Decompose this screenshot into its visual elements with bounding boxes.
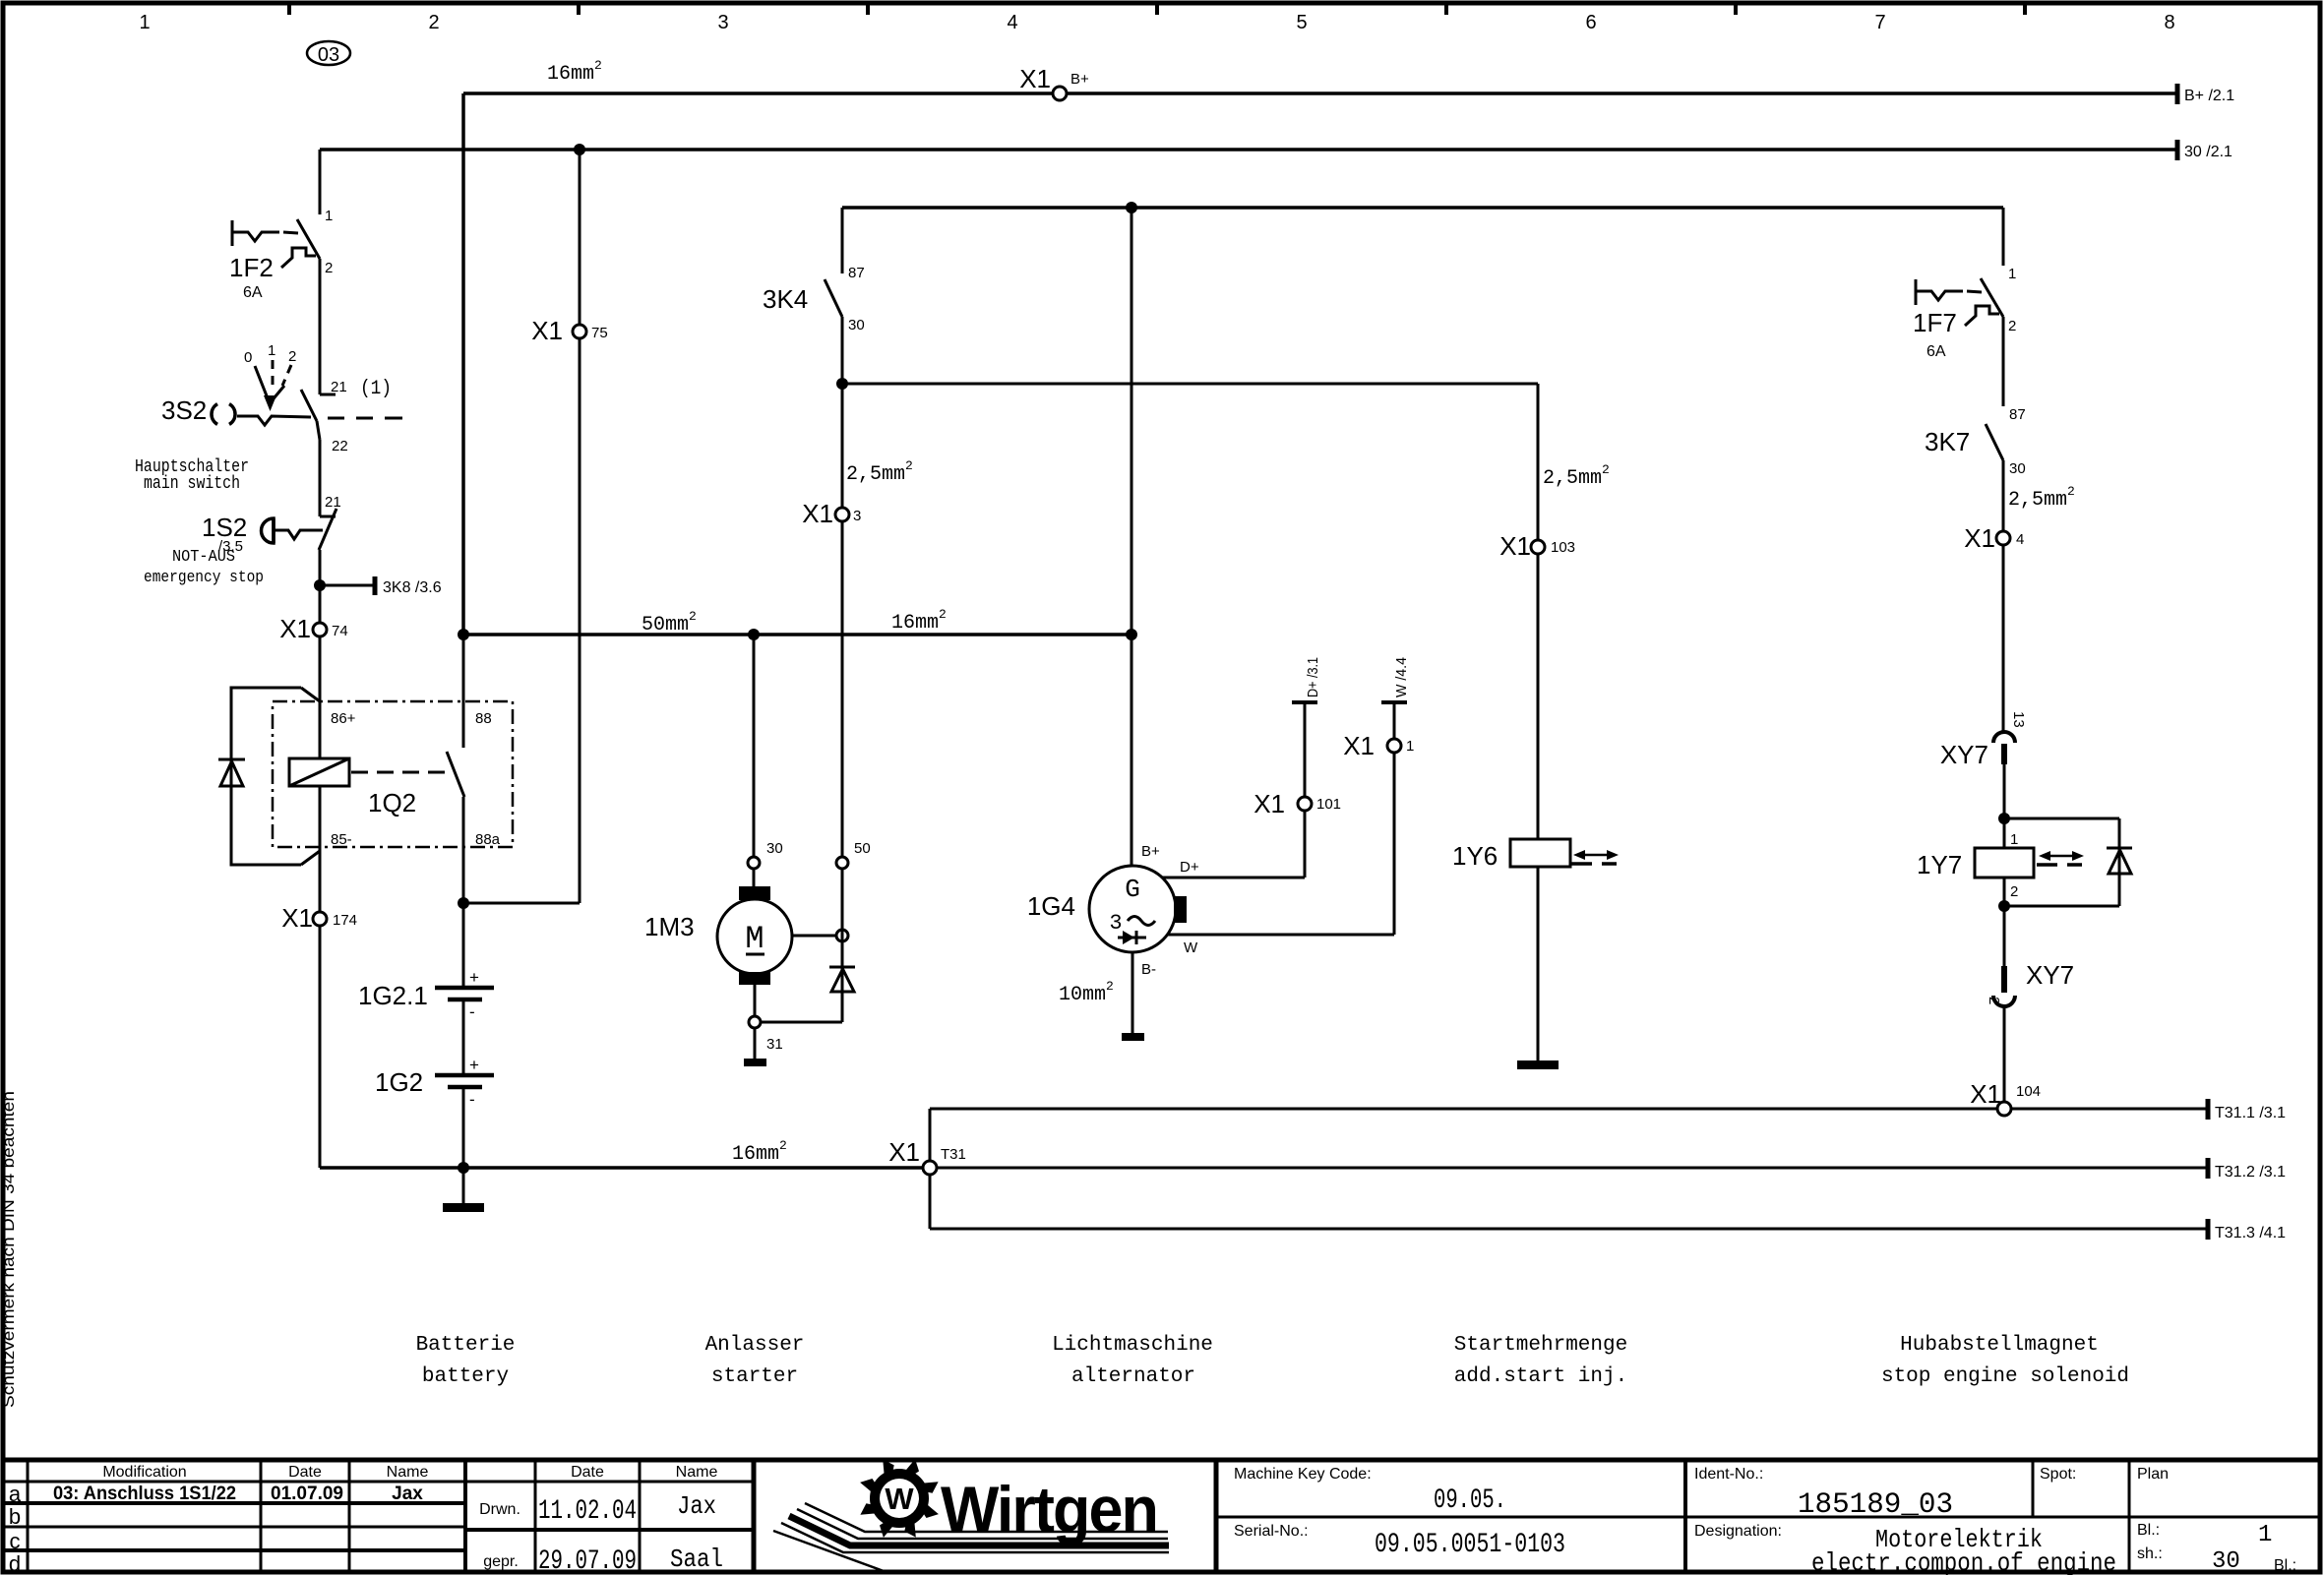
svg-text:1: 1 — [2258, 1522, 2272, 1548]
svg-text:1Y6: 1Y6 — [1452, 841, 1498, 871]
svg-text:3: 3 — [717, 12, 728, 33]
svg-text:1: 1 — [2010, 831, 2018, 848]
svg-text:emergency stop: emergency stop — [144, 569, 264, 587]
svg-text:2,5mm2: 2,5mm2 — [2008, 484, 2075, 512]
svg-text:B-: B- — [1141, 961, 1156, 978]
wire 1F2 to 3S2 — [319, 259, 322, 394]
wire X1:4 to connector XY7:13 — [2002, 545, 2005, 731]
svg-text:03: Anschluss 1S1/22: 03: Anschluss 1S1/22 — [53, 1484, 236, 1504]
svg-text:30: 30 — [766, 840, 783, 857]
wire from B+ bus down to 50mm2 bus — [461, 93, 465, 635]
ground (1Y6) — [1517, 1060, 1559, 1069]
svg-text:Drwn.: Drwn. — [479, 1501, 520, 1518]
svg-text:2,5mm2: 2,5mm2 — [1543, 462, 1610, 490]
svg-text:X1: X1 — [802, 499, 833, 528]
solenoid 1Y7 — [1975, 848, 2034, 878]
wire X1:103 to 1Y6 — [1537, 554, 1540, 839]
wire 1S2 to X1:74 — [319, 550, 322, 623]
svg-text:D+ /3.1: D+ /3.1 — [1305, 657, 1321, 697]
terminal X1 103 — [1531, 540, 1545, 554]
svg-text:X1: X1 — [1254, 789, 1285, 818]
wire 1Y7 to node — [2003, 878, 2006, 966]
svg-text:starter: starter — [711, 1365, 798, 1388]
node junction 1Y7 bottom — [1998, 900, 2010, 912]
svg-text:1G4: 1G4 — [1027, 891, 1075, 921]
svg-text:3K8 /3.6: 3K8 /3.6 — [383, 579, 442, 596]
svg-text:B+: B+ — [1141, 843, 1160, 860]
column ticks — [287, 3, 291, 15]
svg-text:10mm2: 10mm2 — [1059, 979, 1114, 1006]
svg-text:50mm2: 50mm2 — [642, 609, 697, 636]
terminal W/4.4 — [1381, 700, 1407, 704]
svg-text:+: + — [469, 968, 479, 987]
svg-text:29.07.09: 29.07.09 — [538, 1546, 637, 1575]
diode (starter) — [829, 966, 855, 969]
svg-text:Bl.:: Bl.: — [2137, 1522, 2160, 1539]
wire battery to ground bus — [462, 1087, 465, 1203]
svg-text:31: 31 — [766, 1036, 783, 1053]
svg-text:30: 30 — [2009, 460, 2026, 477]
svg-text:2,5mm2: 2,5mm2 — [846, 458, 913, 486]
svg-text:Anlasser: Anlasser — [705, 1334, 805, 1357]
svg-text:Schutzvermerk nach DIN 34 beac: Schutzvermerk nach DIN 34 beachten — [0, 1091, 18, 1408]
wire bus 50mm2/16mm2 y=645 — [463, 633, 1131, 636]
terminal X1 B+ — [1053, 87, 1067, 100]
terminal X1 T31 — [923, 1161, 937, 1175]
svg-text:stop engine solenoid: stop engine solenoid — [1881, 1365, 2129, 1388]
node junction x1150/y645 — [1126, 629, 1137, 640]
svg-text:Ident-No.:: Ident-No.: — [1694, 1466, 1763, 1483]
svg-text:T31.3 /4.1: T31.3 /4.1 — [2215, 1225, 2286, 1242]
wire 3K4 to X1:3 — [841, 384, 844, 508]
svg-text:M: M — [745, 921, 764, 957]
svg-text:87: 87 — [848, 265, 865, 281]
svg-text:W: W — [1184, 939, 1198, 956]
node junction x471/y918 — [458, 897, 469, 909]
svg-text:X1: X1 — [888, 1137, 920, 1167]
terminal T31.1/3.1 — [2206, 1099, 2211, 1120]
svg-text:03: 03 — [318, 44, 339, 66]
wire X1:101 to D+ terminal — [1304, 702, 1307, 797]
svg-text:0: 0 — [244, 349, 252, 366]
svg-text:B+ /2.1: B+ /2.1 — [2184, 88, 2234, 104]
svg-text:Machine Key Code:: Machine Key Code: — [1234, 1466, 1372, 1483]
svg-text:1: 1 — [2008, 266, 2016, 282]
svg-text:3K4: 3K4 — [763, 284, 808, 314]
terminal 31 of 1M3 — [749, 1016, 761, 1028]
svg-text:1: 1 — [268, 342, 275, 359]
svg-text:86+: 86+ — [331, 710, 356, 727]
svg-text:50: 50 — [854, 840, 871, 857]
svg-text:2: 2 — [1986, 997, 2002, 1004]
wire 3K7 to X1:4 — [2002, 460, 2005, 531]
wire 3S2 to 1S2 — [319, 440, 322, 516]
Wirtgen logo gear — [870, 1469, 929, 1528]
svg-text:6: 6 — [1585, 12, 1596, 33]
terminal X1 74 — [313, 623, 327, 636]
svg-text:Wirtgen: Wirtgen — [941, 1473, 1157, 1545]
svg-text:add.start inj.: add.start inj. — [1454, 1365, 1627, 1388]
svg-text:-: - — [469, 1090, 475, 1109]
svg-text:Hubabstellmagnet: Hubabstellmagnet — [1900, 1334, 2099, 1357]
wire XY7 to 1Y7 — [2003, 764, 2006, 848]
terminal X1 4 — [1996, 531, 2010, 545]
drawn/checked table — [534, 1460, 537, 1572]
svg-text:Name: Name — [676, 1464, 718, 1481]
wire 30bus down (X1:75) — [579, 150, 581, 325]
ground (battery minus) — [443, 1203, 484, 1212]
svg-text:21: 21 — [325, 494, 341, 511]
coil 1Q2 — [289, 758, 349, 786]
svg-text:30 /2.1: 30 /2.1 — [2184, 144, 2232, 160]
diode branch parallel to 1Y7 — [2004, 818, 2119, 820]
diode (1Y7 freewheel) — [2107, 847, 2132, 850]
svg-text:87: 87 — [2009, 406, 2026, 423]
svg-text:09.05.0051-0103: 09.05.0051-0103 — [1375, 1530, 1565, 1560]
svg-text:16mm2: 16mm2 — [732, 1138, 787, 1166]
svg-text:7: 7 — [1874, 12, 1885, 33]
svg-text:1F7: 1F7 — [1913, 308, 1957, 337]
terminal T31.3/4.1 — [2206, 1219, 2211, 1240]
wire 1F7 to 3K7 — [2002, 317, 2005, 406]
svg-text:NOT-AUS: NOT-AUS — [172, 548, 235, 567]
svg-text:X1: X1 — [1343, 731, 1375, 760]
wire 1F7 feed corner — [2002, 208, 2005, 266]
svg-text:3: 3 — [853, 508, 861, 524]
svg-text:30: 30 — [2212, 1548, 2240, 1575]
svg-text:2: 2 — [325, 260, 333, 276]
svg-text:Date: Date — [571, 1464, 604, 1481]
wire 30bus to fuse 1F2 — [319, 150, 322, 214]
wire XY7 to X1:104 — [2003, 1007, 2006, 1102]
svg-text:16mm2: 16mm2 — [547, 58, 602, 86]
wire bus 30 y=152 — [320, 148, 2177, 151]
svg-text:X1: X1 — [1499, 531, 1531, 561]
svg-text:-: - — [469, 1002, 475, 1021]
terminal X1 174 — [313, 912, 327, 926]
main switch 3S2 — [320, 394, 336, 396]
svg-text:6A: 6A — [243, 284, 263, 301]
svg-text:Bl.:: Bl.: — [2274, 1557, 2296, 1574]
contact 1Q2 (88/88a) — [462, 635, 465, 748]
svg-text:c: c — [10, 1529, 21, 1553]
svg-text:Startmehrmenge: Startmehrmenge — [1454, 1334, 1627, 1357]
terminal 30 of 1M3 — [748, 857, 760, 869]
wire junction y=390 to 1Y6 corner — [842, 383, 1538, 386]
terminal B+/2.1 — [2175, 84, 2180, 104]
starter motor 1M3 — [739, 886, 770, 900]
wire X1:174 down to ground bus — [319, 926, 322, 1168]
svg-text:Serial-No.:: Serial-No.: — [1234, 1523, 1309, 1540]
relay 1Q2 enclosure dash-dot box — [273, 701, 513, 847]
svg-text:1Q2: 1Q2 — [368, 788, 416, 818]
T31 distribution wires — [929, 1109, 932, 1161]
terminal 50 of 1M3 — [836, 857, 848, 869]
svg-text:Jax: Jax — [677, 1491, 716, 1521]
svg-text:a: a — [9, 1482, 22, 1506]
svg-text:3S2: 3S2 — [161, 395, 207, 425]
solenoid symbol arrows 1Y6 — [1579, 854, 1613, 857]
node junction x471/y1187 — [458, 1162, 469, 1174]
svg-text:16mm2: 16mm2 — [891, 607, 947, 635]
svg-text:185189_03: 185189_03 — [1798, 1488, 1953, 1522]
diode bracket left of 1Q2 — [231, 688, 301, 865]
wire 3K4 to junction — [841, 317, 844, 384]
svg-text:Spot:: Spot: — [2040, 1466, 2076, 1483]
svg-text:3: 3 — [1109, 911, 1122, 936]
svg-text:3K7: 3K7 — [1925, 427, 1970, 456]
svg-text:1: 1 — [1406, 738, 1414, 755]
ground (motor) — [744, 1059, 766, 1066]
emergency stop switch 1S2 — [320, 515, 336, 518]
wire corner down to X1:103 — [1537, 384, 1540, 540]
sheet ref oval 03 — [307, 41, 350, 65]
svg-text:2: 2 — [288, 348, 296, 365]
battery 1G2.1 — [435, 986, 494, 991]
wire X1:3 to motor pin 50 — [841, 521, 844, 857]
svg-text:T31.2 /3.1: T31.2 /3.1 — [2215, 1164, 2286, 1181]
svg-text:X1: X1 — [1964, 523, 1995, 553]
svg-text:2: 2 — [2008, 318, 2016, 334]
terminal X1 104 — [1997, 1102, 2011, 1116]
svg-text:X1: X1 — [1970, 1079, 2001, 1109]
solenoid 1Y6 — [1510, 839, 1570, 867]
svg-text:d: d — [9, 1551, 21, 1575]
svg-text:2: 2 — [428, 12, 439, 33]
svg-text:X1: X1 — [281, 903, 313, 933]
svg-text:1F2: 1F2 — [229, 253, 274, 282]
svg-text:+: + — [469, 1056, 479, 1074]
svg-text:W: W — [885, 1482, 914, 1516]
svg-text:88: 88 — [475, 710, 492, 727]
node junction bus30/x589 — [574, 144, 585, 155]
wire branch to 3K8 — [320, 584, 375, 587]
svg-text:X1: X1 — [1019, 64, 1051, 93]
svg-text:174: 174 — [333, 912, 357, 929]
wire coil to X1:174 — [319, 786, 322, 912]
terminal T31.2/3.1 — [2206, 1158, 2211, 1179]
wire node to battery 1G2.1 — [462, 903, 465, 987]
svg-text:Jax: Jax — [392, 1484, 423, 1504]
Wirtgen logo swoosh — [805, 1503, 1168, 1532]
svg-text:Batterie: Batterie — [416, 1334, 516, 1357]
wire X1:75 to battery node — [579, 338, 581, 903]
svg-text:W /4.4: W /4.4 — [1393, 657, 1410, 697]
svg-text:1Y7: 1Y7 — [1917, 850, 1962, 879]
svg-text:sh.:: sh.: — [2137, 1545, 2163, 1562]
dashed actuator 1Q2 — [351, 771, 445, 774]
svg-text:01.07.09: 01.07.09 — [271, 1484, 343, 1504]
junction circle on 50-line — [836, 930, 848, 941]
svg-text:X1: X1 — [279, 614, 311, 643]
svg-text:1G2: 1G2 — [375, 1067, 423, 1097]
terminal X1 75 — [573, 325, 586, 338]
wire motor right to 50-line — [792, 935, 835, 938]
diode (freewheel) of 1Q2 — [218, 758, 245, 761]
svg-text:main switch: main switch — [144, 474, 240, 494]
svg-text:11.02.04: 11.02.04 — [538, 1496, 637, 1527]
svg-text:1: 1 — [139, 12, 150, 33]
svg-text:09.05.: 09.05. — [1434, 1485, 1506, 1516]
wire X1:1 to W terminal — [1393, 702, 1396, 739]
svg-text:103: 103 — [1551, 539, 1575, 556]
svg-text:88a: 88a — [475, 831, 501, 848]
svg-text:Modification: Modification — [102, 1464, 186, 1481]
svg-text:b: b — [9, 1504, 21, 1529]
svg-text:13: 13 — [2010, 711, 2027, 728]
svg-text:1: 1 — [325, 208, 333, 224]
svg-text:battery: battery — [422, 1365, 509, 1388]
node junction 3K8 branch — [314, 579, 326, 591]
wire diode to pin31 — [761, 1021, 842, 1024]
machine key code cell — [1214, 1460, 1219, 1572]
node junction x1150/y211 — [1126, 202, 1137, 213]
ground (alternator) — [1122, 1033, 1144, 1041]
svg-text:75: 75 — [591, 325, 608, 341]
svg-text:8: 8 — [2164, 12, 2174, 33]
wire X1:74 to relay 1Q2 coil — [319, 636, 322, 758]
svg-text:21: 21 — [331, 379, 347, 395]
svg-text:gepr.: gepr. — [483, 1553, 519, 1570]
svg-text:6A: 6A — [1926, 343, 1946, 360]
relay contact 3K4 — [841, 208, 844, 273]
svg-text:alternator: alternator — [1071, 1365, 1195, 1388]
wire 1Y6 to ground — [1537, 867, 1540, 1060]
svg-text:101: 101 — [1316, 796, 1341, 813]
svg-text:104: 104 — [2016, 1083, 2041, 1100]
svg-text:1G2.1: 1G2.1 — [358, 981, 428, 1010]
terminal D+/3.1 — [1292, 700, 1317, 704]
connector XY7 pin 2 — [2001, 966, 2007, 993]
svg-text:XY7: XY7 — [2026, 960, 2074, 990]
svg-text:Name: Name — [387, 1464, 429, 1481]
svg-text:Date: Date — [288, 1464, 322, 1481]
svg-text:1M3: 1M3 — [644, 912, 695, 941]
battery 1G2 — [435, 1073, 494, 1078]
svg-text:XY7: XY7 — [1940, 740, 1988, 769]
svg-text:4: 4 — [1007, 12, 1017, 33]
svg-text:5: 5 — [1296, 12, 1307, 33]
svg-text:Lichtmaschine: Lichtmaschine — [1052, 1334, 1213, 1357]
node junction x766/y645 — [748, 629, 760, 640]
svg-text:B+: B+ — [1070, 71, 1089, 88]
svg-text:T31.1 /3.1: T31.1 /3.1 — [2215, 1105, 2286, 1121]
wire 30bus down to alternator B+ — [1131, 208, 1133, 867]
svg-text:G: G — [1125, 875, 1140, 904]
svg-text:Designation:: Designation: — [1694, 1523, 1782, 1540]
wire bus y=211 (3K4 feed) — [842, 206, 2003, 210]
svg-text:electr.compon.of engine: electr.compon.of engine — [1811, 1548, 2116, 1575]
title block frame — [2, 1458, 2320, 1463]
svg-text:74: 74 — [332, 623, 348, 639]
terminal X1 3 — [835, 508, 849, 521]
svg-text:Plan: Plan — [2137, 1466, 2169, 1483]
terminal X1 101 — [1298, 797, 1312, 811]
svg-text:2: 2 — [2010, 883, 2018, 900]
node junction x856/y390 — [836, 378, 848, 390]
svg-text:T31: T31 — [941, 1146, 966, 1163]
ground bus 16mm2 y=1187 — [320, 1166, 923, 1170]
node junction x471/y645 — [458, 629, 469, 640]
svg-text:85-: 85- — [331, 831, 352, 848]
terminal 30/2.1 — [2175, 140, 2180, 160]
svg-text:(1): (1) — [360, 378, 392, 400]
wire bus B+ (16mm2) y=95 — [463, 91, 2177, 95]
solenoid symbol arrows 1Y7 — [2045, 855, 2078, 858]
diode symbol inside 1G4 — [1118, 937, 1146, 939]
svg-text:4: 4 — [2016, 531, 2024, 548]
connector block right of 1G4 — [1174, 896, 1187, 923]
svg-text:22: 22 — [332, 438, 348, 454]
svg-text:X1: X1 — [531, 316, 563, 345]
svg-text:Saal: Saal — [670, 1545, 723, 1574]
node junction 1Y7 top — [1998, 813, 2010, 824]
wire bus to motor pin30 — [753, 635, 756, 856]
svg-text:D+: D+ — [1180, 859, 1199, 876]
svg-text:30: 30 — [848, 317, 865, 333]
terminal X1 1 — [1387, 739, 1401, 753]
